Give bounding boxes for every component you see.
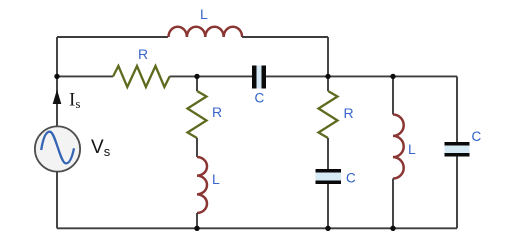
node: branch A top: [194, 74, 199, 79]
branch D: wire (457,77)-(457,142): [456, 76, 458, 142]
svg-text:C: C: [255, 91, 265, 106]
node: branch C top: [390, 74, 395, 79]
svg-text:Vs: Vs: [91, 137, 111, 159]
svg-text:Is: Is: [69, 90, 80, 112]
wire: (393,178.5)-(393,228): [392, 179, 394, 229]
sine wave inside source: [41, 132, 74, 164]
wire: top loop drop (328,37)-(328,77): [327, 37, 329, 76]
svg-text:R: R: [344, 105, 354, 121]
wire: (197,213)-(197,228): [196, 213, 198, 228]
wire: top loop right segment (242,37)-(328,37): [242, 36, 328, 38]
wire: (328,184)-(328,228): [327, 184, 329, 228]
inductor L (branch C vertical, 3 humps): [393, 115, 404, 179]
wire: left rail (57,37)-(57,126): [56, 37, 58, 126]
wire: (328,141.6)-(328,169): [327, 138, 329, 169]
capacitor C (horizontal, series) : dielectric fill: [257, 66, 262, 89]
capacitor C (branch D) plates: [445, 142, 470, 146]
source V1 (AC) circle: [35, 126, 80, 171]
svg-text:C: C: [346, 171, 356, 186]
inductor L (top horizontal, 4 humps): [169, 27, 243, 37]
node: branch B top: [325, 74, 330, 79]
node: left mid junction: [54, 74, 59, 79]
current arrow Is: [53, 90, 62, 105]
inductor L (branch A vertical, 3 humps): [197, 157, 207, 213]
branch C: wire (393,77)-(393,114.5): [392, 76, 394, 114]
resistor R (branch A vertical): [188, 91, 207, 138]
node: branch B bottom: [325, 226, 330, 231]
wire: bottom rail (57,228)-(457,228): [57, 227, 457, 229]
branch B: wire (328,77)-(328,90): [327, 76, 329, 91]
wire: top loop left segment (57,37)-(168,37): [57, 36, 168, 38]
wire: mid rail (169.6,77)-(252,77): [170, 75, 252, 77]
svg-text:R: R: [212, 104, 222, 120]
resistor R (horizontal): [113, 66, 170, 87]
node: branch C bottom: [390, 226, 395, 231]
node: branch A bottom: [194, 226, 199, 231]
capacitor C (branch B) plates: [316, 169, 342, 173]
capacitor C (branch D): dielectric: [445, 146, 470, 154]
svg-text:L: L: [200, 6, 208, 22]
svg-text:C: C: [472, 129, 482, 144]
wire: mid rail (266,77)-(457,77): [266, 75, 457, 77]
svg-text:R: R: [138, 46, 148, 62]
wire: (197,142)-(197,157): [196, 138, 198, 157]
wire: mid rail (57,77)-(113,77): [57, 75, 113, 77]
capacitor C plates: [252, 66, 257, 89]
wire: source bottom (57,172)-(57,228): [56, 172, 58, 229]
branch A: wire (197,77)-(197,92): [196, 76, 198, 91]
svg-text:L: L: [408, 141, 416, 157]
capacitor C (branch B): dielectric: [316, 173, 342, 181]
resistor R (branch B vertical): [319, 91, 338, 138]
wire: (457,156.5)-(457,228): [456, 157, 458, 229]
svg-text:L: L: [212, 171, 220, 187]
